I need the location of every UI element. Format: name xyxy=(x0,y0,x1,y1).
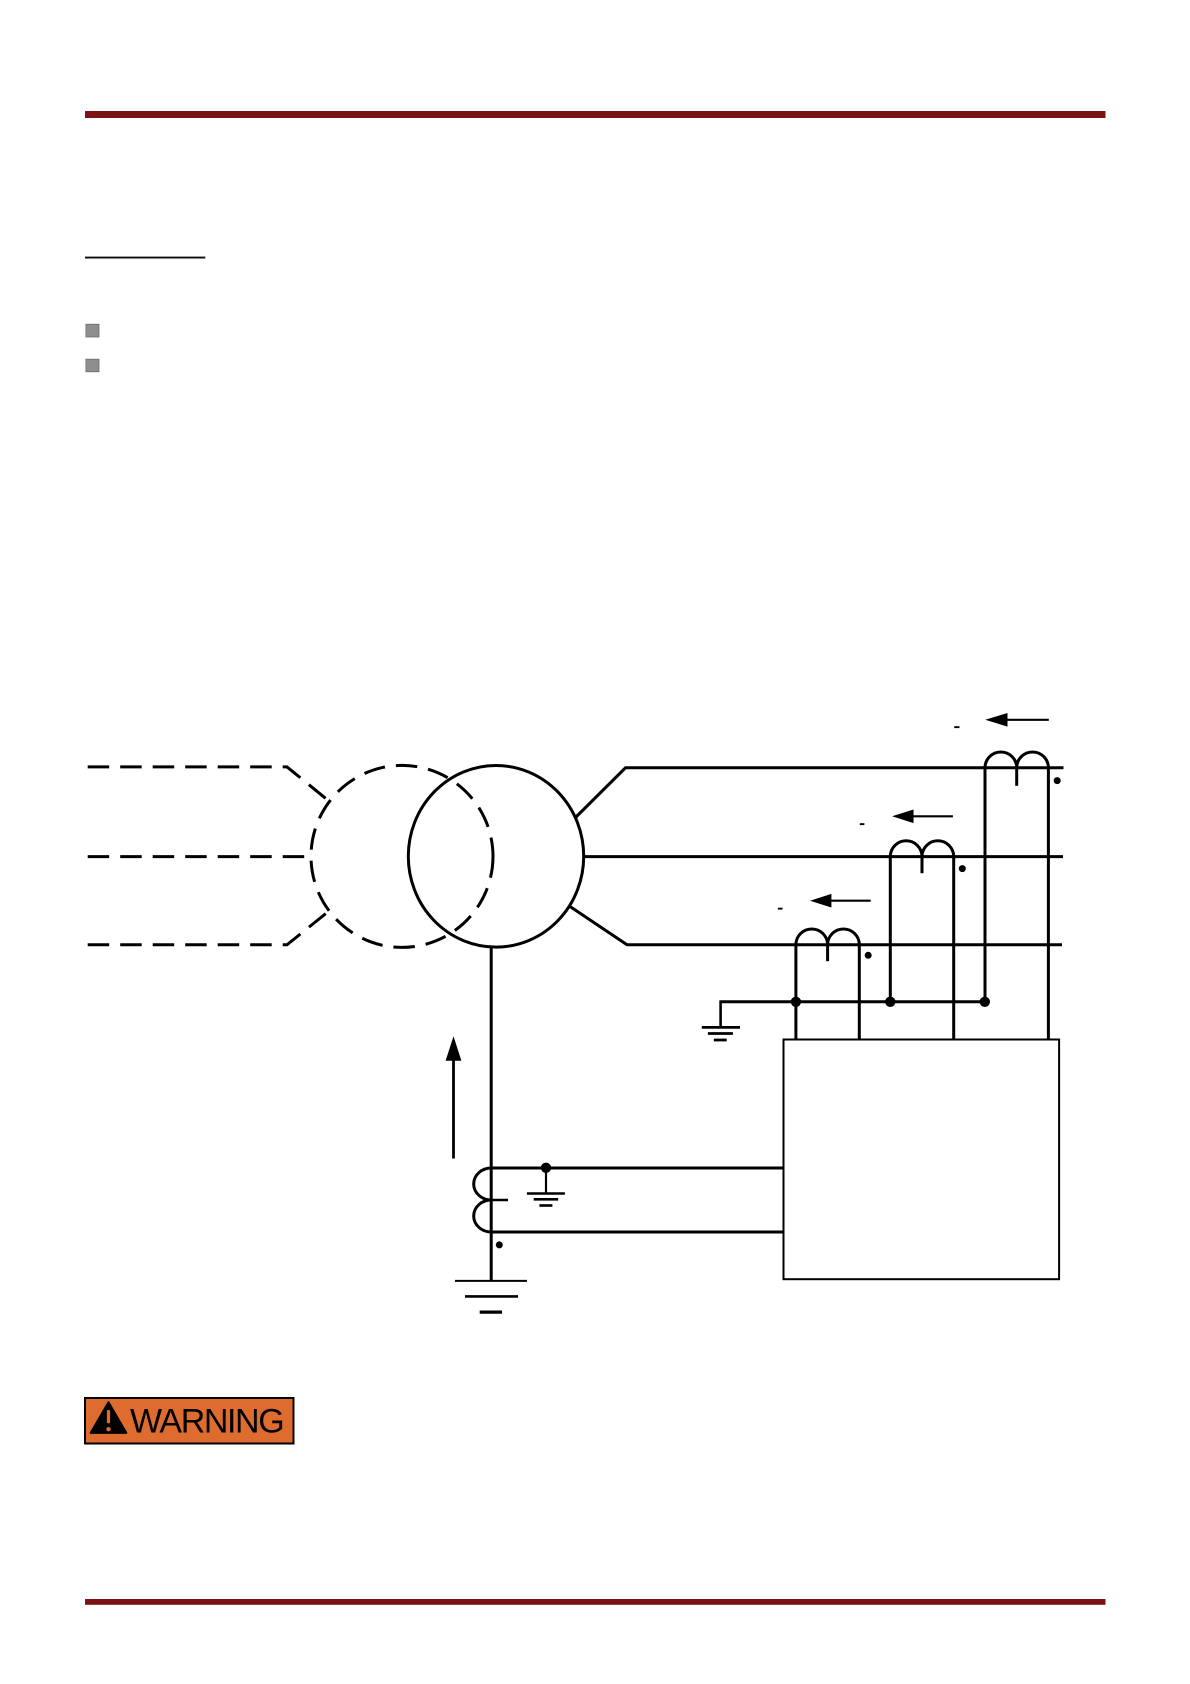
wire: phase C secondary xyxy=(570,907,1062,945)
label dash phase B xyxy=(860,823,865,825)
wire: phase A primary (dashed) xyxy=(88,767,330,802)
label dash phase C xyxy=(778,908,783,910)
junction dot neutral secondary xyxy=(541,1163,551,1173)
transformer T1 secondary winding (solid circle) xyxy=(408,766,583,948)
wire: CT2 lead to common bus xyxy=(889,857,892,1002)
CT3 phase C current transformer xyxy=(796,929,859,961)
junction dot bus-CT1 xyxy=(980,997,990,1007)
heading underline xyxy=(85,257,205,259)
wire: phase A secondary xyxy=(575,768,1064,818)
wire: phase B primary (dashed) xyxy=(88,855,312,858)
wire: CT1 lead to common bus xyxy=(984,768,987,1002)
wire: CT4 secondary bottom lead xyxy=(491,1231,783,1234)
wire: CT2 lead to relay xyxy=(952,857,955,1040)
CT4 neutral current transformer xyxy=(474,1168,508,1232)
wire: CT1 lead to relay xyxy=(1047,768,1050,1040)
junction dot bus-CT3 xyxy=(791,997,801,1007)
wire: neutral conductor xyxy=(490,947,493,1281)
polarity dot CT4 xyxy=(496,1241,503,1248)
ground: CT common bus ground xyxy=(702,1000,740,1040)
polarity dot CT1 xyxy=(1054,777,1061,784)
arrow: phase C current direction xyxy=(810,894,871,908)
polarity dot CT2 xyxy=(959,865,966,872)
wire: CT3 lead to common bus and relay xyxy=(794,945,797,1040)
wire: phase B secondary xyxy=(584,855,1064,858)
polarity dot CT3 xyxy=(865,952,872,959)
ground: station ground (main) xyxy=(455,1281,527,1312)
arrow: phase A current direction xyxy=(985,713,1049,727)
label dash phase A xyxy=(954,726,959,728)
wire: CT4 secondary top lead xyxy=(491,1167,783,1170)
svg-text:WARNING: WARNING xyxy=(130,1403,283,1441)
CT1 phase A current transformer xyxy=(985,752,1048,786)
wire: CT3 lead to relay xyxy=(858,945,861,1040)
CT2 phase B current transformer xyxy=(890,841,953,873)
warning sign panel xyxy=(85,1398,294,1444)
transformer T1 primary winding (dashed circle) xyxy=(311,765,493,947)
arrow: phase B current direction xyxy=(892,810,953,824)
wire: phase C primary (dashed) xyxy=(88,910,330,945)
junction dot bus-CT2 xyxy=(885,997,895,1007)
bullet square 2 xyxy=(86,359,99,372)
ground: neutral secondary ground xyxy=(527,1168,565,1206)
warning sign triangle icon xyxy=(91,1402,127,1433)
wire: CT common bus xyxy=(721,1000,985,1003)
bullet square 1 xyxy=(86,324,99,337)
relay box xyxy=(784,1040,1060,1280)
arrow: neutral current direction (up) xyxy=(446,1036,462,1158)
